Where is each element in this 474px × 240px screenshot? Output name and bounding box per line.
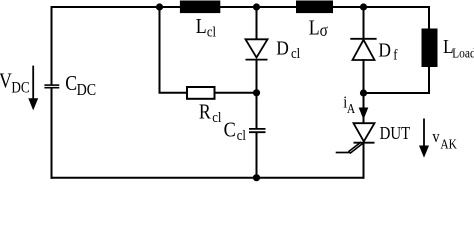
node junction top-left (clamp branch tap) <box>156 3 163 10</box>
label DUT <box>380 124 411 143</box>
svg-text:cl: cl <box>207 24 216 40</box>
resistor R_cl <box>187 87 215 99</box>
wire clamp branch vertical <box>159 7 161 93</box>
label R_cl <box>199 101 222 126</box>
svg-text:C: C <box>65 73 77 96</box>
capacitor C_DC <box>44 85 59 88</box>
svg-text:A: A <box>347 101 355 116</box>
wire left lower <box>51 88 53 179</box>
svg-text:R: R <box>199 101 211 124</box>
wire left upper <box>51 6 53 85</box>
thyristor DUT <box>336 123 375 153</box>
svg-text:cl: cl <box>212 110 221 126</box>
label L_sigma <box>309 17 328 40</box>
node top junction of D_f branch <box>360 3 367 10</box>
label i_A <box>343 94 355 116</box>
svg-text:DC: DC <box>11 80 29 97</box>
label v_AK <box>432 128 457 152</box>
label C_DC <box>65 73 96 100</box>
arrow v_AK (anode-cathode voltage) <box>419 119 429 158</box>
svg-text:f: f <box>393 48 398 64</box>
label D_f <box>378 39 397 64</box>
arrow i_A (anode current) on wire <box>359 93 369 124</box>
arrow V_DC (source voltage direction) <box>28 66 38 111</box>
label C_cl <box>224 118 246 144</box>
svg-text:Load: Load <box>452 46 474 61</box>
capacitor C_cl <box>249 129 266 132</box>
svg-text:cl: cl <box>237 128 246 144</box>
wire right vertical (load branch) <box>428 6 430 94</box>
wire R_cl to node <box>215 92 258 94</box>
svg-text:V: V <box>0 70 12 93</box>
wire D_f to anode node <box>363 59 365 94</box>
node R_cl / C_cl / D_cl junction <box>253 89 260 96</box>
diode D_cl (anode top, cathode bottom) <box>246 39 268 59</box>
svg-text:D: D <box>276 37 289 60</box>
wire C_cl to bottom bus <box>256 132 258 179</box>
inductor L_cl <box>180 1 220 14</box>
svg-text:L: L <box>196 16 207 39</box>
svg-text:L: L <box>309 17 320 40</box>
svg-text:DUT: DUT <box>380 124 411 143</box>
label L_cl <box>196 16 216 41</box>
wire clamp branch horizontal to R_cl <box>159 92 188 94</box>
label D_cl <box>276 37 300 62</box>
svg-text:AK: AK <box>440 137 457 152</box>
wire DUT cathode to bottom bus <box>363 143 365 179</box>
wire top node to D_f <box>363 7 365 39</box>
wire bottom bus <box>51 177 365 179</box>
inductor L_Load <box>422 29 438 68</box>
svg-text:D: D <box>378 39 391 62</box>
svg-text:C: C <box>224 118 236 142</box>
node top junction of D_cl branch <box>253 3 260 10</box>
label V_DC <box>0 70 30 97</box>
svg-text:DC: DC <box>77 81 96 99</box>
svg-text:σ: σ <box>320 20 328 40</box>
node bottom junction <box>253 174 260 181</box>
node D_f / L_Load / DUT junction <box>360 89 367 96</box>
svg-text:v: v <box>432 128 439 146</box>
label L_Load <box>443 36 474 61</box>
inductor L_sigma <box>296 1 333 14</box>
wire load bottom horizontal <box>364 92 431 94</box>
wire top node to D_cl <box>256 7 258 40</box>
svg-text:cl: cl <box>291 46 300 62</box>
diode D_f (freewheeling, cathode top) <box>350 39 376 60</box>
wire D_cl to C_cl <box>256 60 258 129</box>
wire top bus <box>51 6 431 8</box>
